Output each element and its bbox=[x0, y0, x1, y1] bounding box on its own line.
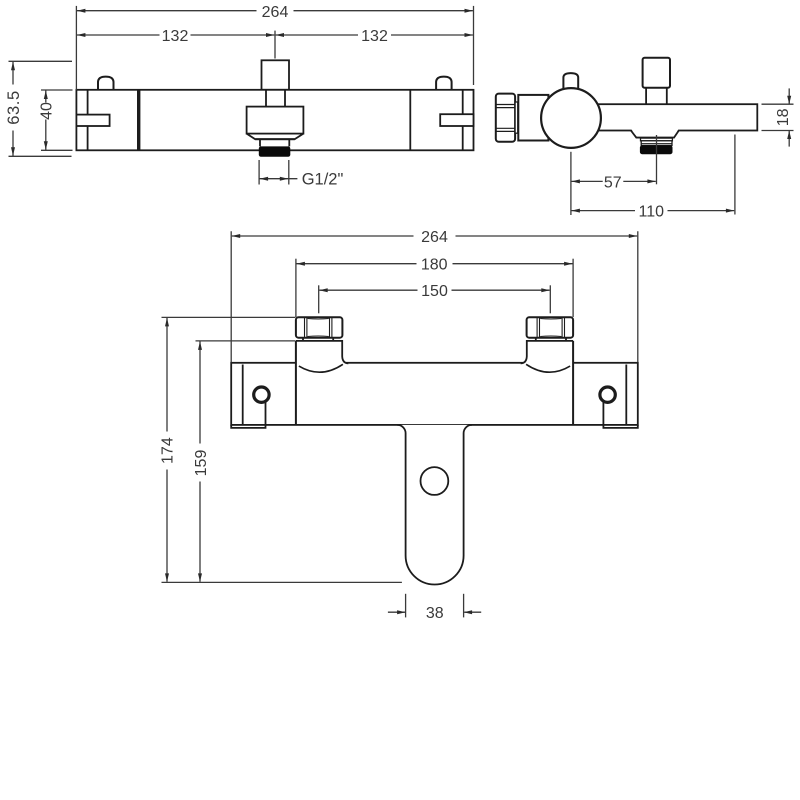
outlet collar bbox=[260, 139, 289, 146]
svg-text:264: 264 bbox=[421, 229, 448, 246]
svg-text:150: 150 bbox=[421, 283, 448, 300]
left union assembly bbox=[296, 317, 349, 425]
180 bbox=[296, 262, 305, 266]
o-ring black band bbox=[640, 145, 673, 154]
174 bbox=[166, 318, 168, 432]
left foot bbox=[231, 403, 265, 428]
18 bbox=[762, 103, 794, 105]
arrowheads 132 R bbox=[276, 33, 285, 37]
knob on circle bbox=[563, 73, 578, 90]
wire: left thick vertical seam bbox=[137, 90, 140, 151]
arrowheads 264 bbox=[77, 9, 86, 13]
svg-text:132: 132 bbox=[361, 28, 388, 45]
outlet skirt bbox=[632, 129, 679, 137]
right foot bbox=[603, 403, 637, 428]
174 bbox=[165, 318, 169, 327]
svg-text:159: 159 bbox=[193, 450, 210, 477]
57 bbox=[570, 152, 572, 215]
left knob bbox=[98, 77, 114, 90]
top centre fitting bbox=[262, 60, 290, 90]
arrowheads 132 L bbox=[77, 33, 86, 37]
outlet o-ring (black) bbox=[259, 146, 291, 156]
svg-text:174: 174 bbox=[160, 437, 177, 464]
nut bbox=[296, 317, 343, 337]
right screw bbox=[600, 387, 615, 402]
saddle arc bbox=[299, 364, 343, 372]
159 bbox=[199, 342, 201, 444]
18 outside arrows bbox=[787, 96, 791, 105]
150 bbox=[319, 288, 328, 292]
arrowheads 63.5 bbox=[11, 62, 15, 71]
svg-text:110: 110 bbox=[639, 204, 665, 221]
washer bbox=[515, 102, 518, 133]
wire: left extension line x=76.4 bbox=[75, 6, 77, 90]
180 ext bbox=[295, 259, 297, 317]
centreline of outlet bbox=[656, 135, 658, 184]
dim 40 vertical bbox=[45, 90, 47, 103]
left lever bbox=[76, 115, 109, 126]
right knob bbox=[436, 77, 452, 90]
outlet bell bbox=[247, 107, 304, 134]
svg-text:264: 264 bbox=[262, 4, 289, 21]
110 bbox=[734, 135, 736, 215]
110 bbox=[571, 209, 580, 213]
wire: right inner vertical bbox=[462, 90, 464, 151]
wire: right vertical seam bbox=[409, 90, 411, 151]
wire: bar body outline bbox=[76, 90, 473, 151]
hex nut side bbox=[496, 94, 515, 142]
bar profile bbox=[571, 104, 757, 130]
57 bbox=[571, 179, 580, 183]
top fitting stem bbox=[646, 88, 667, 104]
left screw bbox=[254, 387, 269, 402]
svg-text:132: 132 bbox=[162, 28, 189, 45]
38 bbox=[405, 594, 407, 618]
right lever bbox=[440, 114, 473, 126]
tongue hole bbox=[421, 467, 449, 495]
svg-text:57: 57 bbox=[604, 174, 622, 191]
150 ext bbox=[318, 285, 320, 313]
dim 132 right line bbox=[276, 34, 358, 36]
dim 63.5 vertical bbox=[12, 61, 14, 84]
outlet neck bbox=[266, 90, 285, 107]
tongue bbox=[397, 425, 472, 585]
svg-text:G1/2": G1/2" bbox=[302, 170, 344, 188]
left cap inner line bbox=[242, 365, 244, 425]
arrowheads G1/2 bbox=[260, 177, 269, 181]
dim 132 left line bbox=[77, 34, 160, 36]
cylinder bbox=[518, 95, 548, 141]
outlet ring A bbox=[641, 138, 673, 141]
svg-text:63.5: 63.5 bbox=[5, 90, 23, 125]
264 ext bbox=[230, 231, 232, 362]
svg-text:38: 38 bbox=[426, 605, 444, 622]
right union assembly (mirror) bbox=[521, 317, 574, 425]
38 outside arrows bbox=[397, 610, 406, 614]
svg-text:180: 180 bbox=[421, 257, 448, 274]
dim G1/2 extension lines bbox=[258, 160, 260, 185]
159 bbox=[198, 341, 202, 350]
wire: left inner vertical bbox=[87, 90, 89, 151]
arrowheads 40 bbox=[44, 91, 48, 100]
wire: right extension line x=473.5 bbox=[473, 6, 475, 85]
right cap inner line bbox=[625, 365, 627, 425]
svg-text:40: 40 bbox=[38, 102, 55, 120]
neck bbox=[303, 338, 333, 341]
dim 264 line (view 1) bbox=[77, 10, 257, 12]
outlet ring B bbox=[641, 141, 672, 146]
handle circle bbox=[541, 88, 601, 148]
top fitting bbox=[643, 58, 670, 88]
bar body bbox=[231, 363, 638, 425]
wire: centre extension x=275 bbox=[274, 31, 276, 59]
outlet chamfer bbox=[247, 134, 304, 140]
svg-text:18: 18 bbox=[775, 108, 792, 126]
264 bbox=[232, 234, 241, 238]
